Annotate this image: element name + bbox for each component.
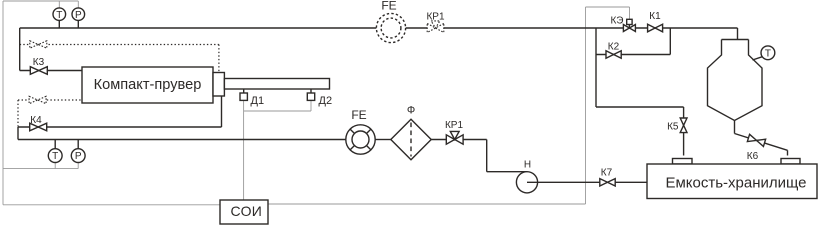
svg-text:Д1: Д1 [251, 95, 265, 107]
measuring vessel neck top [722, 39, 749, 41]
sensor T1 circle [53, 8, 66, 21]
sensor T2 stem to pipe [54, 140, 56, 149]
wire: top main pipe from KR1 to vessel turn [442, 27, 737, 29]
valve K6 (diagonal) [747, 134, 765, 146]
measuring vessel outline [708, 40, 763, 121]
wire: drop to pump level [486, 140, 488, 172]
valve (dashed, future) on upper dotted line [30, 41, 47, 48]
wire: K3 line into prover [20, 70, 83, 72]
svg-text:Р: Р [75, 151, 82, 162]
sensor T2 circle [48, 149, 62, 163]
wire: signal left riser down full height [2, 1, 4, 205]
wire: top main pipe left segment [20, 27, 377, 29]
wire: signal horizontal to valve KE actuator [586, 6, 630, 8]
wire: K2 bypass horizontal [596, 54, 670, 56]
valve K4 [30, 123, 47, 131]
filter F diamond [391, 119, 431, 159]
svg-text:К3: К3 [33, 57, 45, 68]
detector D1 stem [243, 89, 245, 93]
wire: K4 line under prover [18, 126, 222, 128]
valve KE actuator square [627, 19, 632, 24]
valve K1 [648, 24, 663, 32]
svg-text:К7: К7 [601, 168, 613, 179]
wire: signal stem above sensor T1 [58, 1, 60, 8]
wire: signal drop to KE actuator [629, 7, 631, 19]
svg-text:К2: К2 [608, 42, 620, 53]
dotted future line lower: horizontal to prover left [18, 99, 82, 101]
wire: top main pipe between FE and KR1 [406, 27, 429, 29]
wire: signal D2 horizontal join to D1 line [244, 110, 311, 112]
valve K3 [30, 67, 47, 75]
sensor P1 circle [72, 8, 85, 21]
wire: signal stem below sensor T2 [54, 162, 56, 168]
svg-text:Т: Т [765, 48, 771, 59]
svg-text:СОИ: СОИ [230, 203, 262, 219]
detector D2 square [307, 93, 314, 100]
flow element FE (dashed, future) on top pipe [376, 13, 405, 42]
control valve KR1 (dashed, future) on top pipe [427, 21, 444, 33]
wire: signal line top-left horizontal from left riser to P sensor [3, 0, 78, 2]
vessel bottom stub [734, 121, 736, 134]
svg-text:Т: Т [56, 10, 62, 21]
wire: lower pipe filter to KR1 and corner [431, 139, 487, 141]
svg-text:К1: К1 [649, 11, 661, 22]
wire: left riser of top loop [19, 28, 21, 71]
svg-text:КР1: КР1 [426, 12, 444, 23]
storage tank box [647, 164, 817, 199]
wire: lower pipe FE to filter [375, 139, 391, 141]
valve K7 [600, 179, 615, 186]
sensor P2 circle [71, 149, 85, 163]
svg-text:Н: Н [524, 159, 531, 170]
prover box (Compact prover) [82, 67, 213, 103]
sensor T3 connector to vessel [753, 57, 763, 60]
svg-text:FE: FE [351, 108, 366, 122]
wire: signal stem below sensor P2 [77, 162, 79, 168]
svg-text:Ф: Ф [407, 104, 415, 116]
wire: pump discharge line to tank through K7 [527, 181, 647, 183]
sensor P1 stem to pipe [77, 21, 79, 29]
valve KE electric actuator signal stem [628, 25, 630, 29]
wire: signal from SOI right edge to riser near tank [268, 203, 586, 205]
svg-text:FE: FE [381, 0, 396, 13]
valve K5 (vertical) [680, 118, 687, 133]
prover flange [213, 73, 224, 97]
wire: branch horizontal to K5 [596, 106, 684, 108]
wire: branch riser at x=596 from top pipe [595, 28, 597, 107]
valve K2 [606, 51, 621, 59]
wire: lower main pipe to FE [18, 139, 346, 141]
dotted future line lower: riser to K4 line [17, 100, 19, 127]
sensor P2 stem to pipe [77, 140, 79, 149]
detector D2 stem [310, 89, 312, 93]
svg-text:К6: К6 [747, 151, 759, 162]
wire: K6 drop to right nozzle [787, 150, 789, 155]
wire: K5 vertical drop to tank nozzle [683, 107, 685, 156]
svg-text:К4: К4 [30, 115, 42, 126]
SOI computation unit box [220, 200, 268, 224]
svg-text:К5: К5 [667, 121, 679, 132]
svg-text:Р: Р [75, 10, 82, 21]
wire: short left riser K4 to lower pipe [17, 127, 19, 140]
valve (dashed, future) on lower dotted line [29, 96, 46, 103]
sensor T3 circle [761, 46, 775, 60]
sensor T1 stem to pipe [58, 21, 60, 29]
valve KE [623, 25, 635, 32]
filter F dashed center line [410, 123, 412, 157]
wire: signal connector of lower T/P sensors to left riser [3, 168, 78, 170]
dotted future line upper: horizontal over prover [20, 44, 219, 46]
prover bar (displacer rod) [224, 79, 329, 90]
dotted future line upper: drop to flange top [218, 45, 220, 73]
wire: signal bottom horizontal from left riser to SOI box [3, 204, 220, 206]
tank left nozzle [673, 159, 693, 165]
wire: top pipe drop into vessel neck [737, 28, 739, 40]
wire: signal stem above sensor P1 [77, 1, 79, 8]
tank right nozzle [781, 159, 800, 165]
wire: signal from detector D2 down [310, 101, 312, 112]
svg-text:Т: Т [52, 151, 58, 162]
svg-text:Д2: Д2 [319, 95, 333, 107]
wire: horizontal to pump tangent [487, 171, 527, 173]
control valve KR1 on lower pipe [446, 131, 463, 144]
pump N circle [516, 172, 537, 193]
flow element FE turbine meter on lower pipe [346, 125, 375, 154]
svg-text:КР1: КР1 [445, 120, 463, 131]
svg-text:Компакт-прувер: Компакт-прувер [94, 77, 202, 93]
wire: K6 diagonal drain line [735, 134, 788, 151]
wire: K2 bypass riser to top pipe [669, 28, 671, 55]
svg-text:Емкость-хранилище: Емкость-хранилище [665, 174, 806, 191]
detector D1 square [240, 93, 247, 100]
wire: riser from K4 line to prover flange bottom [221, 96, 223, 127]
svg-text:КЭ: КЭ [610, 16, 623, 27]
wire: signal riser up at x=585.5 [585, 7, 587, 204]
wire: signal from detector D1 down to SOI [243, 101, 245, 201]
